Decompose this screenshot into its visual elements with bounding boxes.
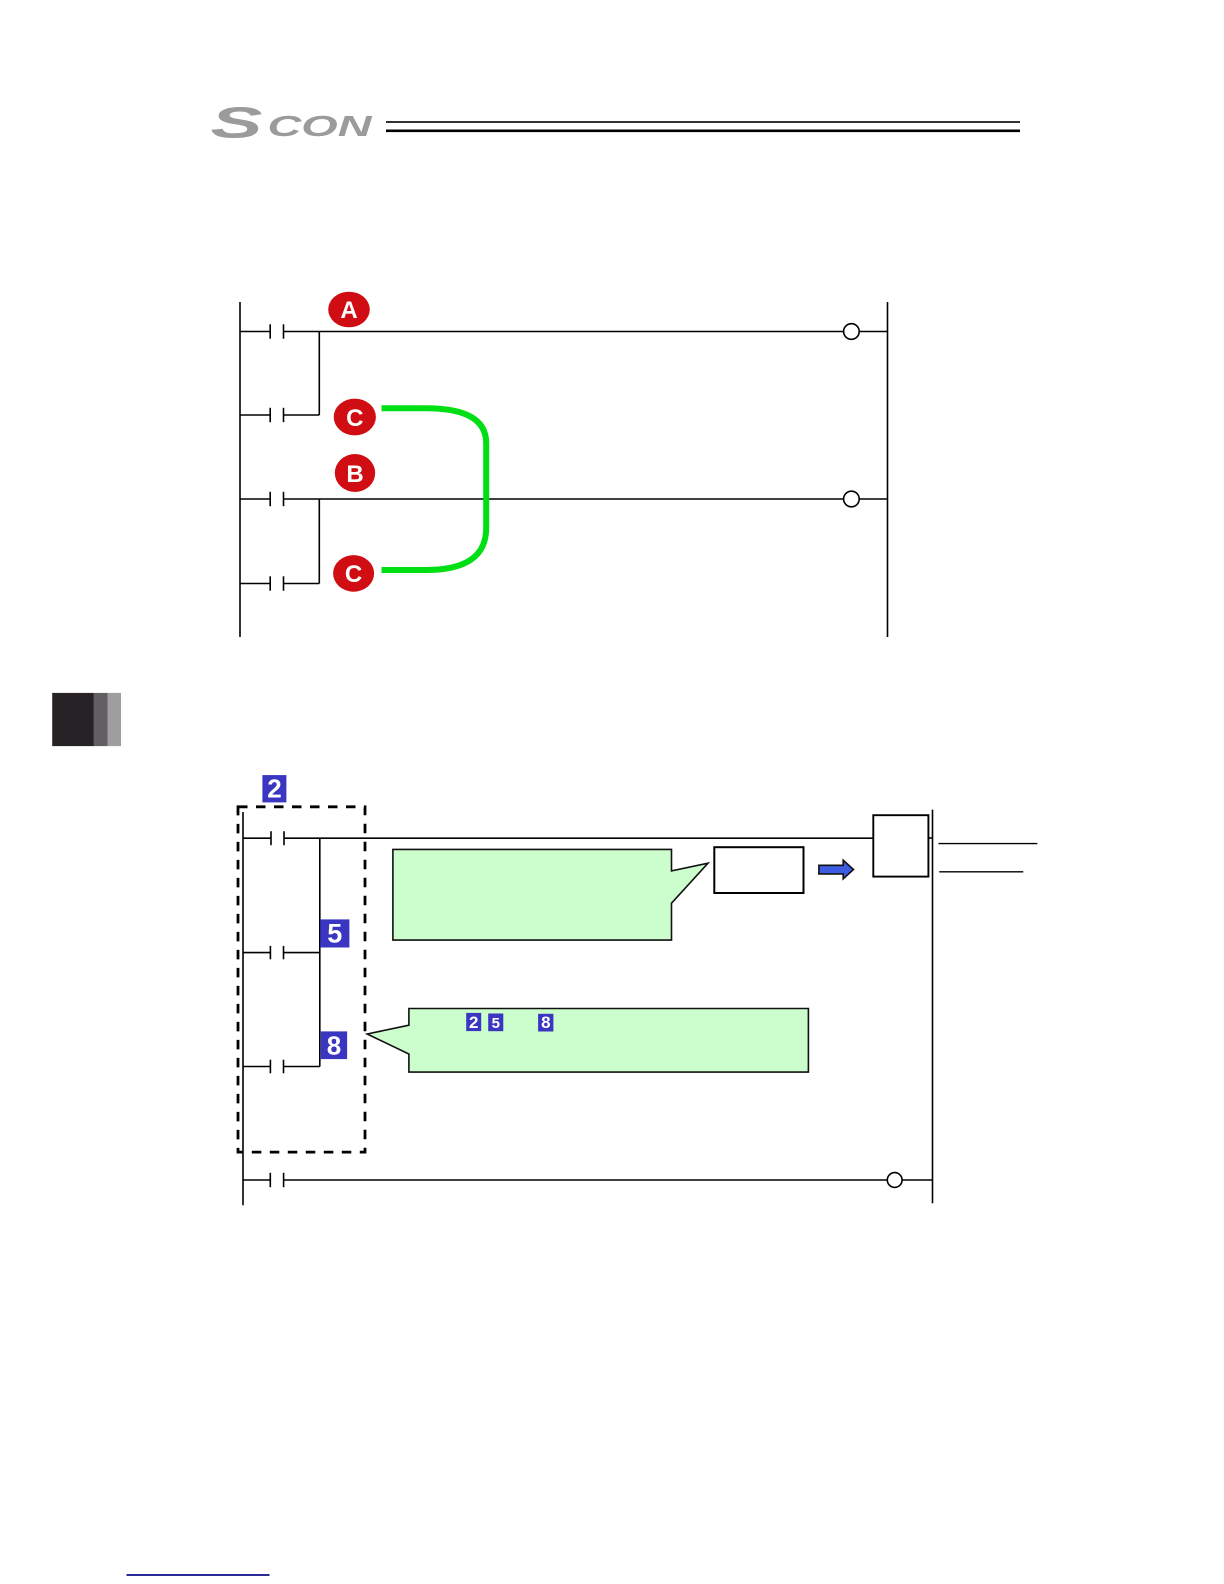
- step tag 5: [320, 919, 349, 949]
- node label B: [335, 454, 375, 492]
- output block box: [873, 815, 928, 876]
- wire rungB right: [284, 952, 320, 954]
- step tag 8: [321, 1030, 347, 1060]
- wire stub right lower: [939, 871, 1023, 873]
- wire branch2 vertical: [318, 499, 320, 584]
- left power rail L1: [239, 302, 241, 637]
- wire stub right upper: [939, 843, 1038, 845]
- wire rungB left: [243, 952, 270, 954]
- wire bottom rung right: [284, 1179, 888, 1181]
- contact bottom rung (N.O.): [269, 1173, 271, 1187]
- wire branch1 vertical: [318, 332, 320, 416]
- wire branch vertical (diagram 2): [319, 838, 321, 1066]
- contact C1 (N.O.): [269, 408, 271, 422]
- wire branch2 right: [284, 583, 320, 585]
- chapter tab block dark: [52, 693, 94, 746]
- header rule thick: [386, 130, 1020, 133]
- chapter tab block mid gray: [94, 693, 108, 746]
- wire output block to rail: [928, 837, 932, 839]
- wire rung1 right: [284, 331, 844, 333]
- contact rungC (N.O.): [269, 1060, 271, 1074]
- wire bottom coil to rail: [902, 1179, 932, 1181]
- contact B (N.O.): [269, 492, 271, 506]
- wire rungA left: [243, 837, 271, 839]
- wire rungA right to output block: [284, 837, 873, 839]
- footer rule (blue): [127, 1574, 270, 1576]
- coil rung2: [844, 491, 860, 507]
- contact rungB (N.O.): [269, 946, 271, 959]
- wire rungC left: [243, 1066, 270, 1068]
- wire branch2 left: [240, 583, 270, 585]
- coil rung1: [844, 324, 860, 340]
- chapter tab block light gray: [108, 693, 121, 746]
- right power rail L2: [887, 302, 889, 637]
- callout tag 5: [488, 1014, 503, 1032]
- svg-text:2: 2: [267, 774, 281, 804]
- svg-text:C: C: [346, 405, 363, 432]
- svg-text:8: 8: [327, 1030, 341, 1060]
- contact C2 (N.O.): [269, 576, 271, 590]
- node label A: [328, 292, 370, 328]
- wire rung2 left: [240, 498, 270, 500]
- wire branch1 left: [240, 414, 270, 416]
- callout tag 2: [466, 1013, 481, 1032]
- left power rail L1 (diagram 2): [242, 812, 244, 1205]
- svg-text:CON: CON: [268, 111, 374, 143]
- green highlight link between contacts C: [382, 408, 487, 570]
- wire bottom rung left: [243, 1179, 270, 1181]
- svg-text:B: B: [346, 461, 363, 488]
- svg-text:S: S: [211, 99, 263, 148]
- node label C (upper): [334, 399, 376, 436]
- header logo SCON: [211, 99, 374, 148]
- wire branch1 right: [284, 414, 320, 416]
- callout balloon 1 (green): [393, 849, 708, 940]
- node label C (lower): [333, 555, 374, 592]
- svg-text:5: 5: [327, 919, 342, 949]
- step tag 2: [262, 774, 286, 804]
- label box (white): [714, 847, 803, 893]
- step group dashed box: [238, 807, 365, 1152]
- callout balloon 2 (green): [367, 1009, 808, 1073]
- svg-text:A: A: [340, 297, 357, 324]
- contact rungA (N.O.): [270, 831, 272, 845]
- header rule thin: [386, 121, 1020, 123]
- svg-text:2: 2: [469, 1013, 478, 1032]
- wire rung2 right: [284, 498, 844, 500]
- wire rung1 left: [240, 331, 270, 333]
- svg-text:8: 8: [541, 1013, 550, 1032]
- wire coil2 to rail: [859, 498, 887, 500]
- svg-text:5: 5: [492, 1015, 500, 1032]
- blue block arrow: [819, 860, 854, 879]
- right power rail L2 (diagram 2): [932, 810, 934, 1204]
- svg-text:C: C: [345, 561, 362, 588]
- coil bottom rung: [887, 1173, 902, 1188]
- wire coil1 to rail: [859, 331, 887, 333]
- callout tag 8: [538, 1013, 553, 1032]
- contact A (N.O.): [269, 324, 271, 338]
- wire rungC right: [284, 1066, 320, 1068]
